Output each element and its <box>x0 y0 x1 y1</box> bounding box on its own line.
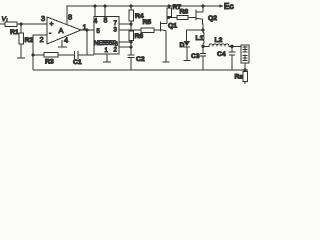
svg-text:C1: C1 <box>73 59 82 66</box>
resistor R7 <box>168 6 170 8</box>
resistor R8 <box>177 15 188 19</box>
svg-text:4: 4 <box>64 36 68 45</box>
wire R8 to Q2 base <box>188 17 196 19</box>
wire 555 pin4 to rail <box>94 6 96 17</box>
wire op-amp pin2 <box>33 35 47 55</box>
resistor Rs <box>243 72 248 82</box>
wire 555 pin1 down <box>106 54 108 62</box>
svg-text:3: 3 <box>41 14 45 23</box>
node rail dot R7 <box>167 4 170 7</box>
transistor Q2 <box>195 10 197 21</box>
IC U2 NE555P box <box>94 17 119 55</box>
capacitor C2 <box>130 47 132 55</box>
wire C1 to 555 <box>78 54 94 56</box>
svg-text:L1: L1 <box>196 35 204 42</box>
wire 555 pin3 output <box>119 29 141 31</box>
resistor R2 <box>20 24 22 33</box>
wire node to R3 <box>33 54 44 56</box>
node dot bottom rail right <box>243 68 246 71</box>
resistor R3 <box>44 53 58 58</box>
resistor R4 <box>130 6 132 10</box>
supply arrow to Ec <box>219 5 222 7</box>
wire input <box>0 23 5 25</box>
transistor Q1 <box>160 22 162 32</box>
svg-text:C3: C3 <box>191 53 200 60</box>
node feedback dot <box>31 53 34 56</box>
svg-text:R2: R2 <box>25 37 34 44</box>
ground tick under diode <box>184 60 191 62</box>
node dot L1 bottom <box>201 45 204 48</box>
wire 555 pin6 <box>119 41 131 43</box>
svg-text:R6: R6 <box>135 33 144 40</box>
inductor L2 <box>203 44 243 46</box>
node dot Q1 collector <box>167 16 170 19</box>
wire bottom common rail <box>33 69 248 71</box>
wire Q2 emitter node to diode <box>187 30 204 41</box>
svg-text:R3: R3 <box>45 59 54 66</box>
pin 4 wire down <box>61 40 63 47</box>
svg-text:8: 8 <box>104 18 108 25</box>
node dot C4 <box>230 45 233 48</box>
op-amp U1 triangle <box>47 17 81 44</box>
wire 555 pin7 <box>119 23 131 25</box>
resistor R1 <box>5 22 17 27</box>
node rail dot at op-amp pin8 riser <box>93 4 96 7</box>
node junction dot input <box>19 22 22 25</box>
node dot Q2 emitter / L1 <box>201 28 204 31</box>
diode D <box>184 41 191 47</box>
svg-text:C4: C4 <box>217 51 226 58</box>
svg-text:Ec: Ec <box>224 2 234 11</box>
wire R3 to C1 <box>58 54 75 56</box>
svg-text:C2: C2 <box>136 56 145 63</box>
resistor R6 <box>130 24 132 31</box>
svg-text:R8: R8 <box>180 9 189 16</box>
svg-text:R5: R5 <box>143 19 152 26</box>
node rail dot pin8 of 555 <box>103 4 106 7</box>
capacitor C4 <box>231 46 233 52</box>
wire 555 pin8 to rail <box>104 6 106 17</box>
inductor L1 <box>203 30 204 46</box>
svg-text:8: 8 <box>68 13 72 22</box>
ground tick under Q1 emitter <box>163 61 170 63</box>
svg-text:R1: R1 <box>10 29 19 36</box>
wire output feedback vertical <box>86 30 88 55</box>
svg-text:4: 4 <box>94 18 98 25</box>
node dot pin6 <box>129 40 132 43</box>
node rail dot Q2 collector <box>201 4 204 7</box>
ground tick under op-amp pin4 <box>58 46 67 48</box>
load box RL <box>241 45 249 63</box>
wire top supply rail <box>67 6 219 25</box>
wire R5 to Q1 base <box>154 29 161 31</box>
node dot pin2 <box>129 45 132 48</box>
node rail dot R4 <box>129 4 132 7</box>
svg-text:2: 2 <box>40 35 44 44</box>
svg-text:Q1: Q1 <box>168 23 177 30</box>
wire 555 pin2 <box>119 46 131 48</box>
svg-text:+: + <box>50 21 54 28</box>
capacitor C1 <box>74 51 76 59</box>
wire feedback node to bottom rail <box>32 55 34 70</box>
wire R1 to op-amp pin3 <box>17 23 47 25</box>
svg-text:NE555P: NE555P <box>94 41 116 47</box>
svg-text:Rs: Rs <box>235 74 244 81</box>
ground tick under R2 <box>17 57 25 59</box>
node dot pin7/R4 <box>129 22 132 25</box>
svg-text:D: D <box>180 42 185 49</box>
capacitor C3 <box>202 46 204 53</box>
svg-text:L2: L2 <box>215 37 223 44</box>
wire Q1 collector to R8 <box>167 17 177 19</box>
wire op-amp output to 555 pin5 <box>81 29 94 31</box>
node output dot <box>85 28 88 31</box>
svg-text:Q2: Q2 <box>208 15 217 22</box>
ground tick under 555 pin1 <box>103 61 111 63</box>
svg-text:A: A <box>59 26 64 35</box>
